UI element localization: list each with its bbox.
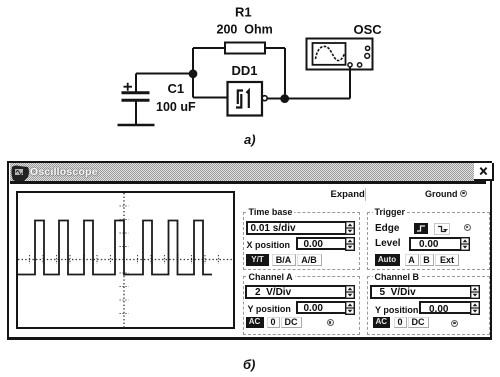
scope display xyxy=(16,191,236,330)
Y position label B xyxy=(375,305,418,315)
button Auto (pressed) xyxy=(375,254,400,266)
edge button falling xyxy=(434,223,450,235)
wire down to node B xyxy=(284,48,286,99)
svg-text:100 uF: 100 uF xyxy=(156,100,196,114)
Edge label xyxy=(375,223,399,234)
DD1 hysteresis glyph xyxy=(238,91,243,105)
OSC screen xyxy=(313,43,346,65)
wire bubble to node B xyxy=(267,98,285,100)
button Ext xyxy=(435,254,459,266)
wire R1 right xyxy=(265,47,285,49)
DD1 output bubble xyxy=(262,96,267,101)
waveform trace xyxy=(18,221,212,275)
svg-text:а): а) xyxy=(244,132,256,147)
wire node A up xyxy=(192,48,194,74)
OSC box xyxy=(307,39,373,70)
OSC terminal right 1 xyxy=(366,46,370,50)
resistor R1 xyxy=(225,43,265,54)
button B/A xyxy=(272,254,296,266)
capacitor plus sign xyxy=(124,83,133,91)
button A/B xyxy=(297,254,322,266)
Y position label A xyxy=(248,304,291,314)
svg-text:C1: C1 xyxy=(168,81,185,96)
group Channel B xyxy=(367,276,490,335)
X position label xyxy=(247,240,291,250)
wire node A down xyxy=(192,74,194,98)
radio channel B xyxy=(451,320,458,327)
vertical center dotted axis xyxy=(123,193,125,328)
capacitor C1 wires xyxy=(135,74,137,92)
title bar separator xyxy=(10,181,486,184)
edge button rising (pressed) xyxy=(414,223,428,234)
button DC B xyxy=(408,317,429,328)
field Level 0.00 xyxy=(409,237,467,251)
DD1 box xyxy=(228,82,263,116)
DD1 '1' glyph xyxy=(247,91,249,109)
button B xyxy=(420,254,434,266)
oscilloscope window frame xyxy=(7,161,492,340)
wire node B to OSC xyxy=(285,98,350,100)
svg-text:200 Ohm: 200 Ohm xyxy=(217,23,273,37)
title bar xyxy=(10,163,486,181)
field 5 V/Div xyxy=(370,285,478,299)
button Y/T (pressed) xyxy=(246,254,269,266)
label b) xyxy=(243,357,255,372)
field 2 V/Div xyxy=(245,285,353,299)
button DC A xyxy=(281,317,302,328)
wire to DD1 input xyxy=(193,97,228,99)
button 0 B xyxy=(394,317,407,328)
close button xyxy=(474,163,494,181)
svg-text:R1: R1 xyxy=(235,5,252,20)
button AC A (pressed) xyxy=(246,317,264,328)
group Trigger xyxy=(367,212,490,270)
svg-text:DD1: DD1 xyxy=(232,63,258,78)
Ground label xyxy=(425,189,458,199)
group Channel A xyxy=(243,276,360,335)
OSC terminal right 2 xyxy=(365,54,370,59)
title bar icon xyxy=(10,164,31,182)
button 0 A xyxy=(267,317,280,328)
ground xyxy=(118,124,155,127)
OSC sine trace xyxy=(316,46,345,60)
field 0.01 s/div xyxy=(246,221,348,235)
Expand button xyxy=(331,189,365,200)
radio channel A xyxy=(327,319,334,326)
svg-text:OSC: OSC xyxy=(354,22,383,37)
spinner timebase xyxy=(345,221,355,235)
axis tick marks xyxy=(30,206,219,314)
wire cap top to node A xyxy=(136,73,193,75)
field Y position A xyxy=(296,301,351,314)
field Y position B xyxy=(419,301,477,314)
OSC terminal bottom 2 xyxy=(358,63,362,67)
group Time base xyxy=(243,212,360,270)
wire to R1 left xyxy=(193,47,225,49)
title text Oscilloscope xyxy=(30,166,98,178)
node B junction dot xyxy=(280,94,289,103)
node A junction dot xyxy=(189,69,198,78)
button AC B (pressed) xyxy=(373,317,391,328)
button A xyxy=(405,254,419,266)
field X position 0.00 xyxy=(296,237,351,250)
circuit schematic (part a) xyxy=(0,0,500,160)
Ground radio xyxy=(460,190,467,197)
OSC terminal bottom 1 xyxy=(348,63,352,67)
horizontal center dotted axis xyxy=(18,259,233,261)
capacitor C1 plates xyxy=(122,91,150,94)
Level label xyxy=(375,238,401,249)
wire up to OSC terminal xyxy=(349,67,351,99)
edge radio xyxy=(464,224,471,231)
